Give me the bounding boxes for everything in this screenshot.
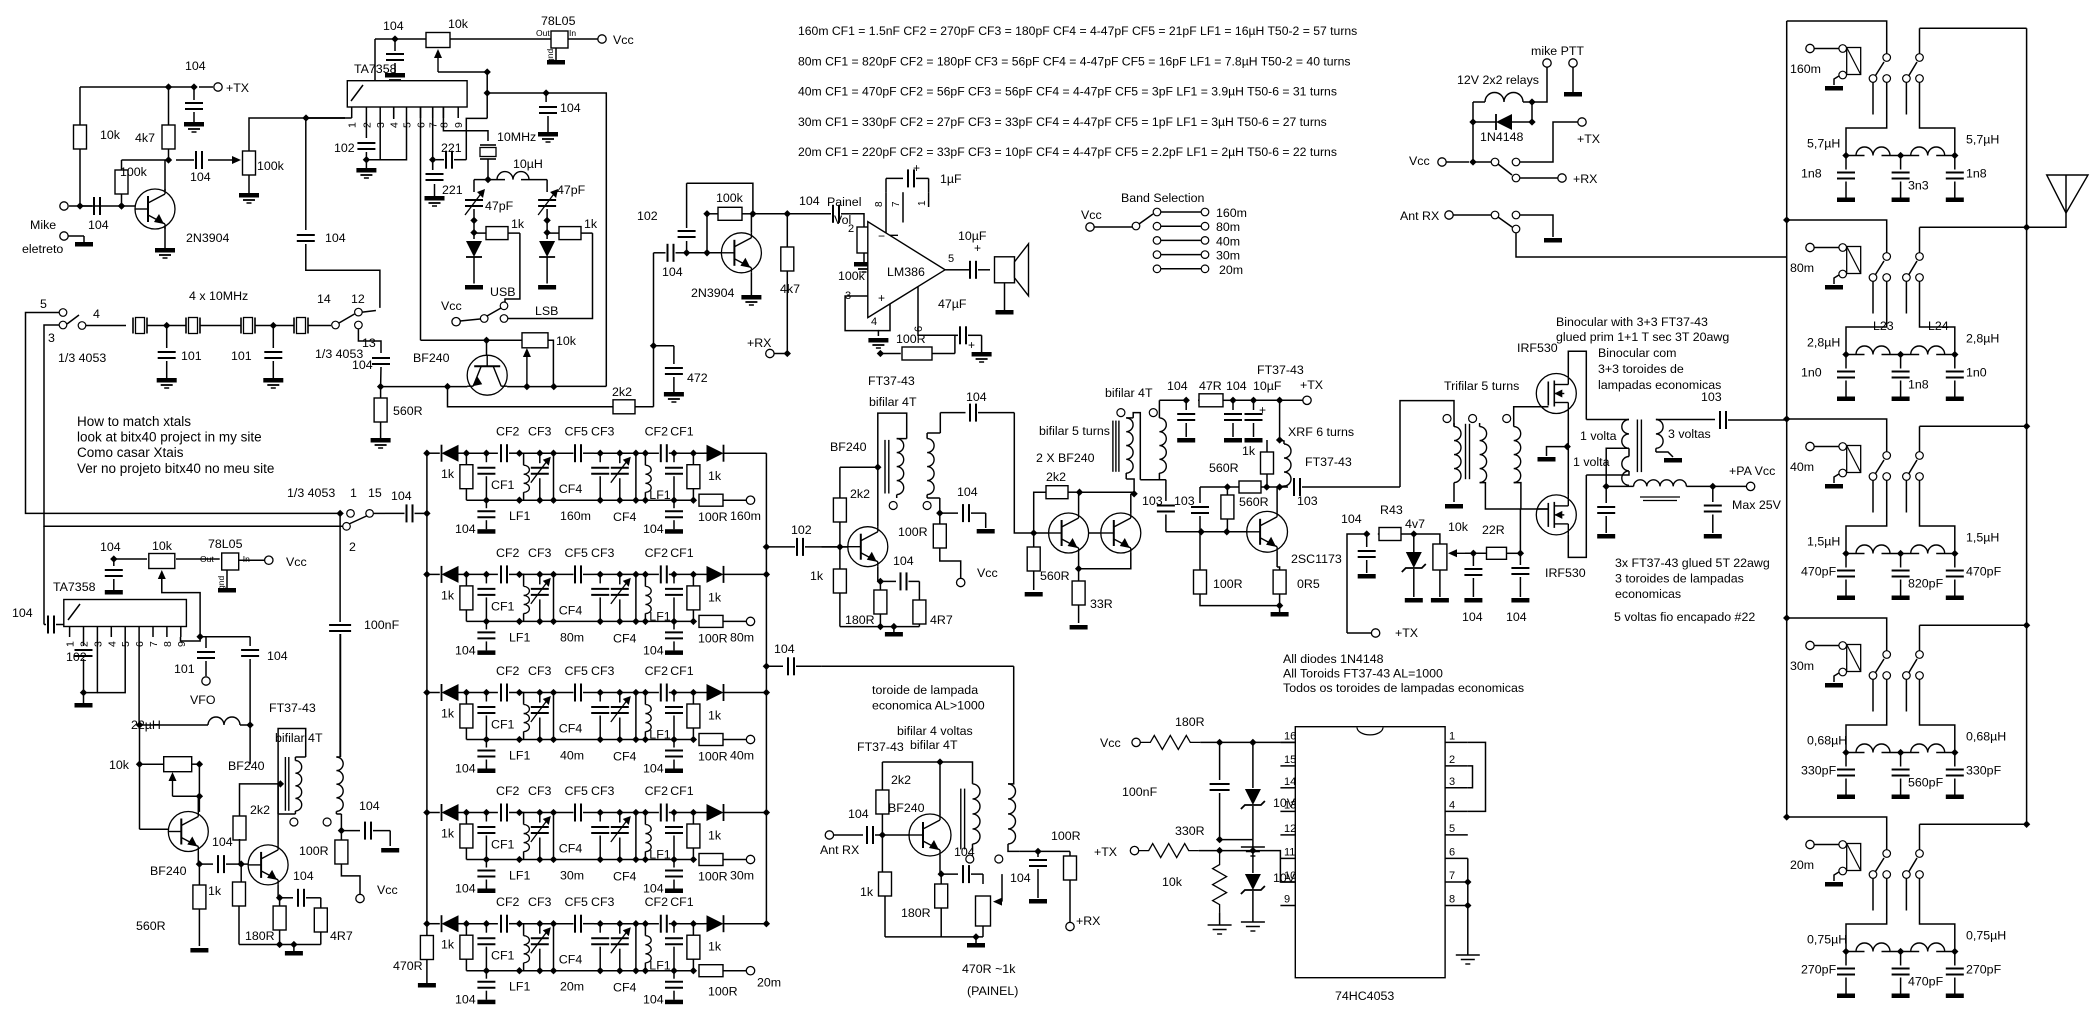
svg-text:472: 472	[687, 371, 708, 385]
label toroide 1	[872, 699, 985, 713]
svg-text:5,7µH: 5,7µH	[1966, 133, 1999, 147]
wire bias	[122, 159, 169, 161]
diode D 20m in	[442, 915, 467, 932]
transformer T drv w1	[1126, 418, 1133, 479]
label lbl CF3 160m 528	[528, 425, 552, 439]
label lval R 160m	[1966, 133, 1999, 147]
wire predrv emit	[877, 567, 879, 582]
svg-text:104: 104	[1506, 610, 1527, 624]
switch USB/LSB	[452, 302, 508, 326]
wire shunt 160m a	[550, 450, 557, 504]
junction buf bot	[276, 941, 303, 956]
label 330R zig	[1175, 824, 1205, 838]
wire sw4 to x1	[86, 325, 126, 327]
svg-text:560pF: 560pF	[1908, 776, 1944, 790]
label lpf band 160m	[1790, 62, 1821, 76]
capacitor 47uF	[955, 326, 992, 362]
svg-text:0R5: 0R5	[1297, 577, 1320, 591]
svg-text:CF3: CF3	[528, 895, 552, 909]
wire txbuf out	[554, 385, 607, 387]
wire predrv in	[847, 546, 849, 548]
svg-text:4: 4	[93, 307, 100, 321]
label bifilar 5 turns	[1039, 424, 1110, 438]
resistor 0R5	[1273, 567, 1286, 606]
wire p678 gnd	[1467, 858, 1469, 955]
svg-text:CF4: CF4	[613, 510, 637, 524]
label 14	[317, 292, 331, 306]
label CF1 160m a	[491, 478, 515, 492]
label 104 out	[190, 170, 211, 184]
junction det col	[703, 210, 791, 217]
capacitor 104 vfoout	[341, 822, 399, 853]
junction mic tx	[165, 83, 198, 90]
capacitor 103 fb	[1191, 487, 1209, 532]
label 104 mixrail	[560, 101, 581, 115]
junction predrv emit	[877, 578, 884, 585]
label lbl CF1 160m 670.2	[670, 425, 694, 439]
svg-text:1k: 1k	[1242, 444, 1256, 458]
svg-text:CF2: CF2	[496, 784, 520, 798]
svg-text:1,5µH: 1,5µH	[1807, 535, 1840, 549]
IC U1 TA7358	[347, 81, 467, 107]
transformer T out w1a	[1586, 420, 1629, 449]
svg-text:30m: 30m	[730, 869, 754, 883]
wire row 30m start	[423, 809, 440, 816]
wire det emit	[750, 273, 752, 295]
label cval3 160m	[1966, 167, 1987, 181]
capacitor 270pF 20m 1846	[1837, 952, 1855, 999]
bandsel row 30m	[1153, 251, 1209, 259]
crystal XF2	[186, 318, 241, 334]
wire lpf swR stub 20m	[1905, 879, 1907, 911]
phase dots vfo xfmr	[290, 818, 331, 826]
wire lpf swR stub 40m	[1905, 481, 1907, 513]
svg-text:104: 104	[88, 218, 109, 232]
svg-text:1µF: 1µF	[940, 172, 962, 186]
svg-text:10k: 10k	[109, 758, 130, 772]
switch filt 4053	[336, 510, 385, 530]
svg-text:100R: 100R	[898, 525, 928, 539]
wire lpf link L 20m	[1783, 813, 1887, 849]
label cval2 40m	[1908, 577, 1944, 591]
svg-text:LF1: LF1	[649, 959, 670, 973]
svg-text:2: 2	[349, 540, 356, 554]
capacitor 104 filter in	[385, 504, 427, 522]
label cval2 20m	[1908, 975, 1944, 989]
svg-text:8: 8	[162, 641, 174, 647]
diode D 80m out	[704, 566, 766, 583]
resistor 4R7 predrv	[913, 600, 926, 627]
resistor 1k 160m out	[680, 450, 704, 504]
junction outbus 102	[763, 543, 770, 550]
label 10k vfo	[152, 539, 173, 553]
svg-text:11: 11	[1284, 846, 1295, 858]
junction bus 104 in	[423, 510, 430, 517]
label binocular pt 2	[1598, 378, 1721, 392]
svg-text:LF1: LF1	[509, 509, 530, 523]
svg-text:80m: 80m	[1216, 220, 1240, 234]
svg-text:160m: 160m	[1216, 206, 1247, 220]
svg-text:7: 7	[1449, 870, 1455, 882]
label 10k vfo2	[109, 758, 130, 772]
label Vcc 4053	[1100, 736, 1121, 750]
label VFO	[190, 693, 216, 707]
svg-text:1: 1	[917, 200, 928, 206]
label 104 det	[662, 265, 683, 279]
svg-text:74HC4053: 74HC4053	[1335, 989, 1394, 1003]
label cval2 160m	[1908, 179, 1929, 193]
ground det emit	[741, 295, 761, 305]
label 1k 40m in lbl	[441, 707, 455, 721]
label 2k2 drv	[1046, 470, 1066, 484]
wire mic collector	[164, 160, 166, 191]
svg-text:30m: 30m	[1216, 249, 1240, 263]
label lbl LF1a 160m	[509, 509, 530, 523]
svg-text:0,68µH: 0,68µH	[1807, 734, 1847, 748]
resistor 180R buf	[273, 898, 286, 945]
label bandsel 20m	[1219, 263, 1243, 277]
capacitor CF2 160m b	[661, 444, 680, 462]
svg-text:100k: 100k	[120, 165, 148, 179]
label L24	[1928, 319, 1949, 333]
label lbl CF3 30m 528	[528, 784, 552, 798]
junction lm out	[945, 269, 958, 271]
junction txbuf base	[377, 383, 558, 390]
relay K 20m	[1806, 840, 1861, 886]
label 104 predeg	[893, 554, 914, 568]
svg-text:8: 8	[1449, 894, 1455, 906]
wire pin7 jog	[432, 159, 434, 161]
wire vfo tune r	[200, 636, 250, 638]
wire buf bottom rail	[239, 944, 321, 946]
label 180R buf	[245, 929, 275, 943]
transistor Q BF240 vfo buf	[248, 845, 288, 885]
svg-text:CF2: CF2	[645, 664, 669, 678]
svg-text:+TX: +TX	[226, 81, 249, 95]
wire predrv botrail	[840, 626, 920, 628]
label 2k2 buf	[250, 803, 270, 817]
svg-text:40m: 40m	[1790, 460, 1814, 474]
svg-text:In: In	[243, 554, 250, 564]
terminal out 80m	[746, 617, 754, 625]
svg-text:6: 6	[416, 122, 428, 128]
junction rxfe col	[936, 758, 943, 765]
svg-text:22µH: 22µH	[131, 718, 161, 732]
label lbl band 40m	[560, 749, 584, 763]
label CF1 80m a	[491, 599, 515, 613]
junction osc emit	[196, 860, 203, 867]
diode D 40m in	[442, 684, 467, 701]
resistor 100R 30m	[699, 854, 746, 866]
wire 100R rx	[880, 353, 900, 355]
svg-text:3: 3	[1449, 776, 1455, 788]
transistor Q BF240 drv2	[1101, 513, 1141, 553]
svg-text:VFO: VFO	[190, 693, 216, 707]
capacitor 560pF 30m 1900.6	[1892, 753, 1910, 800]
diode D 30m in	[442, 804, 467, 821]
capacitor 104 bias c	[1511, 553, 1529, 602]
svg-text:CF3: CF3	[591, 425, 615, 439]
capacitor 103 drv out	[1157, 506, 1175, 532]
label 221 b	[442, 183, 463, 197]
wire mix rail right	[487, 92, 546, 94]
junction lowrail 80m	[483, 618, 523, 625]
svg-text:9: 9	[176, 641, 188, 647]
svg-text:104: 104	[185, 59, 206, 73]
label 22uH	[131, 718, 161, 732]
junction predrv out node	[936, 509, 943, 516]
wire shunt 30m b	[620, 809, 659, 863]
svg-text:10µH: 10µH	[513, 157, 543, 171]
label 101 xf1	[181, 349, 202, 363]
label 47uF	[938, 297, 967, 311]
svg-text:10k: 10k	[152, 539, 173, 553]
junction coil	[1528, 98, 1535, 105]
resistor 100R vfo	[335, 831, 360, 894]
capacitor CF5 160m	[575, 444, 594, 462]
junction 20m lf1a	[516, 920, 523, 927]
label 33R drv	[1090, 597, 1113, 611]
wire drv2 col	[1130, 494, 1132, 513]
svg-text:1: 1	[350, 486, 357, 500]
label table line 2	[798, 85, 1337, 99]
svg-text:104: 104	[893, 554, 914, 568]
label CF1 20m a	[491, 949, 515, 963]
svg-text:+: +	[974, 241, 981, 255]
svg-text:All Toroids FT37-43 AL=1000: All Toroids FT37-43 AL=1000	[1283, 667, 1443, 681]
svg-text:10k: 10k	[1448, 520, 1469, 534]
svg-text:560R: 560R	[393, 404, 423, 418]
resistor 1k 30m in	[460, 809, 473, 860]
svg-text:104: 104	[643, 882, 664, 896]
wire vcc sw	[1473, 161, 1491, 163]
label xtals note 0	[77, 414, 191, 429]
svg-text:TA7358: TA7358	[53, 580, 96, 594]
transistor Q BF240 predrv	[848, 527, 888, 567]
svg-text:100nF: 100nF	[1122, 785, 1158, 799]
svg-text:100R: 100R	[698, 510, 728, 524]
svg-text:100R: 100R	[698, 870, 728, 884]
label band out 20m	[757, 976, 781, 990]
label lbl CF3 20m 591	[591, 895, 615, 909]
label 1uF	[940, 172, 962, 186]
svg-text:104: 104	[455, 643, 476, 657]
svg-text:104: 104	[455, 522, 476, 536]
wire row 20m a	[466, 920, 498, 927]
transistor Q BF240 rxfe	[909, 814, 951, 856]
svg-text:CF3: CF3	[528, 664, 552, 678]
label 103 c	[1297, 494, 1318, 508]
label 4v7	[1405, 517, 1425, 531]
junction bias	[118, 156, 172, 209]
label 103 pa	[1701, 390, 1722, 404]
wire 100nF drop	[339, 513, 341, 622]
label Vol	[834, 213, 851, 227]
svg-text:2k2: 2k2	[891, 773, 911, 787]
junction rxfe emit	[938, 870, 945, 877]
junction lpf nodes 80m	[1842, 351, 1958, 358]
wire drv col bus	[1080, 491, 1135, 493]
wire row 30m a	[466, 809, 498, 816]
wire mic cap to pin1 row	[306, 117, 345, 119]
junction bias w	[1470, 550, 1477, 557]
transformer T drv w1 leads	[1126, 413, 1140, 494]
wire txbuf row2	[507, 386, 554, 388]
capacitor 104 outbus	[766, 657, 821, 675]
svg-text:CF2: CF2	[645, 895, 669, 909]
svg-text:1,5µH: 1,5µH	[1966, 531, 1999, 545]
svg-text:10µF: 10µF	[1253, 379, 1282, 393]
capacitor 104 20m a	[477, 971, 495, 1005]
svg-text:270pF: 270pF	[1966, 963, 2002, 977]
label 12	[351, 292, 365, 306]
svg-text:20m: 20m	[1790, 858, 1814, 872]
terminal +RX rxfe	[1066, 922, 1074, 930]
svg-text:80m: 80m	[1790, 261, 1814, 275]
wire pin5 vfo	[97, 637, 125, 693]
opamp U LM386	[868, 222, 945, 318]
wire row 40m a	[466, 689, 498, 696]
junction xf2	[270, 322, 277, 329]
transformer T vfo w1	[278, 757, 306, 814]
inductor L 40m b	[1901, 545, 1955, 554]
wire rxfe emit	[939, 856, 941, 875]
svg-text:104: 104	[455, 762, 476, 776]
resistor 10k mic	[74, 87, 87, 206]
label 47pF usb	[485, 199, 514, 213]
inductor L 80m a	[1846, 346, 1901, 355]
switch lpf L 160m	[1869, 54, 1890, 83]
capacitor 10uF out	[958, 241, 990, 279]
label 100k vol	[838, 269, 866, 283]
wire to +TX	[1520, 122, 1578, 162]
junction 47R a	[1183, 397, 1190, 404]
label 104 txbuf	[352, 358, 373, 372]
label binocular en 0	[1556, 315, 1708, 329]
wire xrf bot	[1267, 486, 1280, 488]
svg-text:Vcc: Vcc	[613, 33, 634, 47]
label 104 predrv	[966, 390, 987, 404]
wire buf emit	[277, 885, 279, 898]
wire vcc rail	[375, 38, 551, 40]
junction outbus 80m	[763, 571, 770, 578]
svg-text:104: 104	[325, 231, 346, 245]
svg-text:6: 6	[1449, 846, 1455, 858]
label CF1 30m a	[491, 838, 515, 852]
label 1/3 4053 filt	[287, 486, 335, 500]
capacitor 104 rail b	[1224, 400, 1242, 442]
label lbl CF1 40m 670.2	[670, 664, 694, 678]
svg-text:Ant RX: Ant RX	[1400, 209, 1439, 223]
label binocular en 1	[1556, 330, 1729, 344]
label 3x ft37 2	[1615, 587, 1681, 601]
svg-text:104: 104	[391, 489, 412, 503]
label +TX drv	[1300, 378, 1323, 392]
label band out 30m	[730, 869, 754, 883]
label binocular pt 1	[1598, 362, 1684, 376]
trimpot 10k vfo	[149, 554, 175, 591]
capacitor 104 mixrail	[538, 89, 558, 142]
svg-text:100R: 100R	[1051, 829, 1081, 843]
label 104 80m a	[455, 643, 476, 657]
svg-text:1k: 1k	[708, 590, 722, 604]
label bifilar 4T predrv	[869, 395, 917, 409]
svg-text:22R: 22R	[1482, 523, 1505, 537]
junction pavcc	[1709, 483, 1716, 490]
svg-text:104: 104	[1341, 512, 1362, 526]
label 1k 30m out lbl	[708, 829, 722, 843]
inductor LF1 40m b	[642, 689, 651, 743]
wire drv2 emit	[1079, 553, 1131, 569]
svg-text:Vcc: Vcc	[441, 299, 462, 313]
svg-text:560R: 560R	[1209, 461, 1239, 475]
label FT37-43 rxfe	[857, 740, 904, 754]
svg-text:bifilar 4T: bifilar 4T	[910, 738, 958, 752]
capacitor 101 xf1	[157, 326, 177, 389]
capacitor 330pF 30m 1846	[1837, 753, 1855, 800]
capacitor 104 bias b	[1464, 553, 1482, 602]
capacitor 104 rxfe out	[1029, 851, 1047, 903]
svg-text:All diodes 1N4148: All diodes 1N4148	[1283, 652, 1384, 666]
trimmer CF4 30m b	[611, 809, 631, 863]
label lbl LF1a 80m	[509, 630, 530, 644]
label 10uF lm	[958, 229, 987, 243]
capacitor 104 bias a	[1358, 534, 1376, 579]
wire usb contact	[505, 233, 520, 302]
svg-text:bifilar 4T: bifilar 4T	[275, 731, 323, 745]
capacitor 104 mic out	[176, 151, 202, 169]
svg-text:CF1: CF1	[670, 425, 694, 439]
diode D 20m out	[704, 915, 766, 932]
wire shunt 80m b	[620, 571, 659, 625]
resistor 180R predrv	[874, 581, 887, 626]
resistor 1k 80m out	[680, 571, 704, 625]
label 1k 160m out lbl	[708, 469, 722, 483]
junction 10k3 r	[196, 761, 203, 800]
wire row 160m start	[423, 450, 440, 457]
label 10k top	[448, 17, 469, 31]
svg-text:4: 4	[106, 641, 118, 647]
label TA7358 top	[354, 62, 397, 76]
label FT37-43 vfo	[269, 701, 316, 715]
label cval3 40m	[1966, 565, 2002, 579]
svg-text:104: 104	[966, 390, 987, 404]
mosfet Q IRF530 upper	[1536, 374, 1576, 414]
junction buf emit	[276, 894, 283, 901]
capacitor 270pF 20m 1954.8	[1946, 952, 1964, 999]
capacitor 221 a	[429, 151, 466, 169]
wire base drop	[486, 340, 488, 355]
label band out 160m	[730, 509, 761, 523]
svg-text:+TX: +TX	[1395, 626, 1418, 640]
junction lpf nodes 160m	[1842, 152, 1958, 159]
resistor 4k7 det	[781, 214, 794, 354]
ground 4053 b	[1241, 922, 1265, 931]
label 104 30m a	[455, 882, 476, 896]
trimmer 47pF usb	[465, 180, 485, 233]
label 100nF 4053	[1122, 785, 1158, 799]
transistor Q 2N3904 det	[721, 233, 761, 273]
capacitor 104 30m b	[665, 860, 683, 894]
label lbl LF1b 160m	[649, 488, 670, 502]
label lbl CF3 40m 528	[528, 664, 552, 678]
wire ant to filters	[1516, 233, 1786, 257]
svg-text:104: 104	[1167, 379, 1188, 393]
wire buf col to w1	[277, 784, 279, 814]
wire mic emitter	[164, 227, 166, 248]
svg-text:Binocular with 3+3 FT37-43: Binocular with 3+3 FT37-43	[1556, 315, 1708, 329]
svg-text:101: 101	[231, 349, 252, 363]
